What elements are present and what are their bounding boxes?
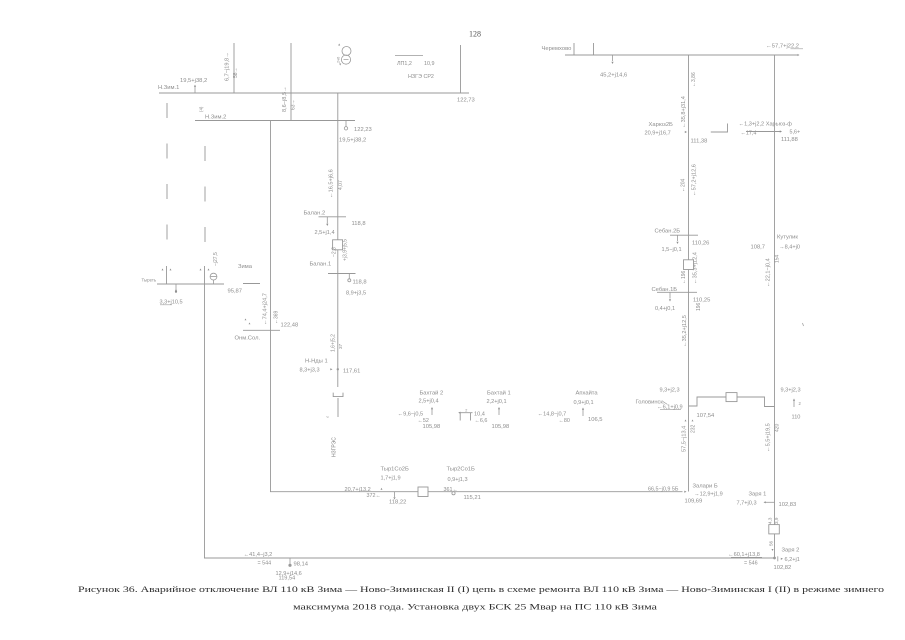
generator circle lower — [341, 55, 350, 64]
BSK stem — [213, 280, 215, 284]
tripped-flow arrow b1 — [200, 269, 202, 271]
underline 60,1+j13,8 — [731, 556, 762, 558]
tick Балан.2 — [319, 216, 347, 218]
svg-text:95,87: 95,87 — [228, 289, 243, 295]
bus H7 bottom — [204, 557, 775, 559]
tick Харьюзовка — [746, 131, 780, 133]
tripped-flow arrow a2 — [170, 269, 172, 271]
load arrow Себан.2Б — [676, 242, 678, 244]
transformer T on H6 — [418, 487, 428, 497]
svg-text:←14,8−j0,7: ←14,8−j0,7 — [538, 412, 567, 418]
wire Головинская stepped link — [689, 397, 775, 407]
svg-text:107,54: 107,54 — [697, 413, 716, 419]
open breaker bracket — [333, 393, 343, 397]
load arrow Балан.2 — [326, 224, 328, 226]
load stem Тыреть — [175, 284, 177, 289]
svg-text:←35,2+j12,5: ←35,2+j12,5 — [682, 315, 688, 347]
svg-text:420: 420 — [774, 423, 780, 432]
svg-text:←9,6−j0,5: ←9,6−j0,5 — [398, 412, 424, 418]
svg-text:111,88: 111,88 — [781, 137, 798, 143]
generator arrow up — [338, 44, 340, 46]
svg-text:8,6−j8,5→: 8,6−j8,5→ — [282, 86, 288, 112]
svg-text:122,73: 122,73 — [457, 98, 475, 104]
node circle on H6 — [452, 492, 455, 495]
svg-text:Н.Зим.1: Н.Зим.1 — [158, 85, 179, 91]
tripped-flow arrow a1 — [162, 269, 164, 271]
svg-text:(4): (4) — [199, 106, 204, 112]
svg-text:372←: 372← — [367, 493, 381, 499]
svg-text:117,61: 117,61 — [343, 369, 360, 375]
tiny mark right margin — [803, 323, 804, 326]
svg-text:→8,4+j0: →8,4+j0 — [779, 245, 800, 251]
load arrow up at Н.Зим.1 — [194, 85, 196, 87]
transformer T Заря — [769, 525, 780, 534]
svg-text:←196: ←196 — [681, 270, 687, 284]
svg-text:Балан.2: Балан.2 — [304, 211, 326, 217]
svg-text:2,5+j0,4: 2,5+j0,4 — [419, 399, 439, 405]
bus end arrow — [797, 54, 799, 56]
svg-text:2,2+j0,1: 2,2+j0,1 — [487, 399, 507, 405]
svg-text:Балан.1: Балан.1 — [310, 262, 332, 268]
arrow down below T Заря — [772, 549, 774, 551]
lower stub of dashed line I — [166, 266, 168, 284]
svg-text:45,2+j14,6: 45,2+j14,6 — [600, 73, 627, 79]
svg-text:Бахтай 2: Бахтай 2 — [420, 390, 444, 397]
bus Черемхово — [565, 54, 797, 56]
svg-text:8,3+j3,3: 8,3+j3,3 — [300, 368, 320, 374]
svg-text:8,9+j3,5: 8,9+j3,5 — [346, 291, 366, 297]
svg-text:154: 154 — [774, 254, 780, 263]
flow arrow d2 — [692, 420, 694, 422]
svg-text:111,38: 111,38 — [691, 139, 708, 145]
svg-text:−j27,5: −j27,5 — [213, 252, 219, 266]
load stem at Н.Зим.1 — [194, 86, 196, 93]
underline 22,2 — [791, 48, 804, 50]
svg-text:Заря 1: Заря 1 — [749, 492, 767, 498]
svg-text:Черемхово: Черемхово — [542, 46, 572, 52]
svg-text:110: 110 — [792, 415, 801, 421]
svg-text:6,7−j19,8→: 6,7−j19,8→ — [225, 52, 231, 81]
stem Бахтай 2 — [431, 409, 433, 416]
svg-text:→12,9+j1,9: →12,9+j1,9 — [694, 492, 723, 498]
svg-text:361←: 361← — [444, 487, 458, 493]
svg-text:2,5+j1,4: 2,5+j1,4 — [315, 230, 335, 236]
svg-text:118,8: 118,8 — [352, 221, 366, 227]
H6 end arrow — [684, 491, 686, 493]
svg-text:10,9: 10,9 — [424, 61, 435, 67]
svg-text:105,98: 105,98 — [423, 424, 441, 430]
node stem 122,23 — [345, 121, 347, 127]
svg-text:0,9+j1,3: 0,9+j1,3 — [448, 477, 468, 483]
small arrow c2 — [249, 323, 251, 325]
transformer T Себан — [684, 260, 694, 270]
tripped-flow arrow b2 — [208, 269, 210, 271]
dashed line Зима-НовоЗиминская II — [204, 146, 206, 257]
node circle 122,23 — [344, 127, 347, 130]
svg-text:НЗГЭ СР2: НЗГЭ СР2 — [408, 74, 434, 80]
svg-text:Рисунок 36. Аварийное отключен: Рисунок 36. Аварийное отключение ВЛ 110 … — [78, 585, 884, 594]
underline 6,1+j0,9 — [660, 409, 681, 411]
tick Черемхово 2 — [593, 43, 595, 55]
svg-text:7,7+j0,3: 7,7+j0,3 — [737, 501, 757, 507]
arrow up Апхайта — [582, 408, 584, 410]
wire feeder V270 — [270, 121, 272, 492]
svg-text:Зима: Зима — [238, 264, 253, 270]
node stem 98,14 — [289, 558, 291, 564]
svg-text:= 546: = 546 — [744, 561, 758, 567]
stem Апхайта — [582, 409, 584, 416]
dashed line Зима-НовоЗиминская I — [166, 103, 168, 257]
tick symbol Харьюз — [711, 124, 728, 133]
svg-text:Онм.Сол.: Онм.Сол. — [235, 336, 261, 342]
svg-text:НЗГРЭС: НЗГРЭС — [332, 437, 338, 457]
load stem Балан.2 — [326, 217, 328, 224]
svg-text:Тыр2Со1Б: Тыр2Со1Б — [447, 467, 476, 473]
generator tilde mark — [344, 59, 349, 61]
transformer T Балан — [333, 240, 343, 250]
svg-text:3,9: 3,9 — [774, 517, 779, 524]
wire from 128-line to bus Н.Зим.1 — [460, 45, 462, 93]
arrow Заря2 right — [781, 558, 783, 560]
svg-text:19,5+j38,2: 19,5+j38,2 — [339, 138, 366, 144]
svg-text:Харюз2Б: Харюз2Б — [649, 122, 674, 128]
arrow into node Н-Нды — [330, 368, 332, 370]
wire line to Черемхово circuit 1 — [233, 43, 235, 93]
svg-text:←3,86: ←3,86 — [691, 72, 697, 87]
svg-text:←1,3+j2,2 Харьюз-ф: ←1,3+j2,2 Харьюз-ф — [739, 122, 793, 128]
small arrow c1 — [245, 319, 247, 321]
svg-text:128: 128 — [469, 30, 481, 39]
wire feeder V689 — [688, 55, 690, 492]
arrow up Бахтай 1 — [498, 407, 500, 409]
svg-text:122,48: 122,48 — [281, 323, 299, 329]
tick Себан.1Б — [657, 291, 697, 293]
bus Онм.Сол. — [243, 329, 280, 331]
bus H6 Зима-Залари — [270, 491, 683, 493]
svg-text:Себан.2Б: Себан.2Б — [655, 229, 681, 235]
svg-text:←5,5+j19,5: ←5,5+j19,5 — [765, 423, 771, 452]
wire feeder V775 — [774, 55, 776, 558]
load arrow 118,22 — [393, 497, 395, 499]
svg-text:←22,1−j0,4: ←22,1−j0,4 — [765, 258, 771, 287]
svg-text:115,21: 115,21 — [464, 495, 481, 501]
svg-text:56: 56 — [768, 540, 773, 546]
pointer tick Головинск — [663, 402, 668, 405]
svg-text:Бахтай 1: Бахтай 1 — [487, 390, 511, 397]
svg-text:6,2+j1: 6,2+j1 — [785, 557, 800, 563]
svg-text:108,7: 108,7 — [751, 245, 766, 251]
svg-text:Залари Б: Залари Б — [693, 484, 718, 490]
svg-text:63→: 63→ — [291, 99, 297, 110]
tick Балан.1 — [328, 273, 356, 275]
bus Н.Зим.1 — [159, 92, 469, 94]
svg-text:←16,5+j6,6: ←16,5+j6,6 — [329, 169, 335, 198]
svg-text:19,5+j38,2: 19,5+j38,2 — [180, 78, 207, 84]
svg-text:= 544: = 544 — [258, 561, 272, 567]
tiny arrow up at flow — [381, 488, 383, 490]
svg-text:37: 37 — [338, 343, 343, 349]
svg-text:0,9+j0,1: 0,9+j0,1 — [574, 400, 594, 406]
svg-text:58→: 58→ — [233, 67, 239, 78]
svg-text:Тыр1Со2Б: Тыр1Со2Б — [381, 467, 410, 473]
load arrow Черемхово — [611, 62, 613, 64]
svg-text:Апхайта: Апхайта — [576, 390, 599, 397]
svg-text:←369: ←369 — [274, 310, 280, 324]
svg-text:1,5−j0,1: 1,5−j0,1 — [662, 247, 682, 253]
svg-text:+j3,9+j5,5: +j3,9+j5,5 — [342, 239, 348, 261]
underline 3,3 — [160, 304, 172, 306]
jumper arrow left — [458, 412, 460, 414]
svg-text:66,5−j0,9 5Б: 66,5−j0,9 5Б — [648, 486, 679, 492]
svg-text:102,83: 102,83 — [779, 502, 797, 508]
load stem Себан.2Б — [677, 235, 679, 241]
svg-text:232: 232 — [691, 424, 697, 433]
wire line to Черемхово circuit 2 — [290, 43, 292, 121]
svg-text:2: 2 — [465, 409, 467, 413]
bus Тыреть — [157, 283, 224, 285]
stem Бахтай 1 — [498, 409, 500, 416]
svg-text:9,3+j2,3: 9,3+j2,3 — [660, 388, 680, 394]
svg-text:Кутулик: Кутулик — [777, 235, 798, 241]
arrow Харьюзовка — [780, 130, 782, 132]
svg-text:102,82: 102,82 — [774, 565, 792, 571]
load dot Тыреть — [175, 291, 177, 293]
svg-text:110,26: 110,26 — [692, 241, 709, 247]
svg-text:←57,2+j12,6: ←57,2+j12,6 — [691, 164, 697, 196]
arrow up Головинская — [793, 399, 795, 401]
generator arrow down — [339, 64, 341, 66]
BSK bar — [211, 276, 217, 278]
svg-text:←41,4−j3,2: ←41,4−j3,2 — [244, 552, 273, 558]
tick Заря2 — [777, 556, 779, 561]
svg-text:4,3: 4,3 — [767, 517, 772, 524]
svg-text:105,98: 105,98 — [492, 424, 510, 430]
tick Заря1 — [766, 501, 775, 503]
svg-text:максимума 2018 года. Установка: максимума 2018 года. Установка двух БСК … — [293, 603, 658, 612]
BSK circle — [210, 273, 217, 280]
svg-text:ЛП1,2: ЛП1,2 — [397, 61, 412, 67]
svg-text:1,6+j5,2: 1,6+j5,2 — [331, 334, 337, 352]
svg-text:98,14: 98,14 — [294, 562, 309, 568]
svg-text:←204: ←204 — [680, 178, 686, 192]
load arrow Себан.1Б — [669, 299, 671, 301]
svg-text:Заря 2: Заря 2 — [782, 548, 800, 554]
svg-text:118,8: 118,8 — [353, 280, 367, 286]
jumper bracket symbol — [460, 413, 472, 421]
svg-text:109,69: 109,69 — [685, 499, 703, 505]
svg-text:←80: ←80 — [559, 418, 570, 424]
svg-text:Н-Нды 1: Н-Нды 1 — [305, 359, 328, 365]
load stem 118,22 — [394, 492, 396, 497]
stub to НЗГРЭС — [337, 398, 339, 417]
node circle Балан.1 — [348, 279, 351, 282]
node stem Балан.1 — [348, 274, 350, 279]
main left feeder V204 — [204, 266, 206, 558]
transformer T Головинская — [726, 393, 737, 402]
bus Зима — [243, 283, 260, 285]
load stem Себан.1Б — [669, 293, 671, 299]
load arrow Тыреть — [175, 290, 177, 292]
svg-text:119,54: 119,54 — [279, 576, 296, 582]
svg-text:1,7+j1,9: 1,7+j1,9 — [381, 476, 401, 482]
svg-text:20,9+j16,7: 20,9+j16,7 — [645, 131, 671, 137]
flow arrow d1 — [685, 420, 687, 422]
tick Себан.2Б — [670, 234, 698, 236]
tick Черемхово 1 — [573, 43, 575, 55]
svg-text:0,4+j0,1: 0,4+j0,1 — [655, 306, 675, 312]
svg-text:Тыреть: Тыреть — [142, 278, 157, 283]
svg-text:10,4: 10,4 — [474, 412, 485, 418]
svg-text:118,22: 118,22 — [389, 500, 406, 506]
arrow up Бахтай 2 — [431, 407, 433, 409]
stem arrow right — [793, 400, 795, 407]
arrow Заря1 — [764, 501, 766, 503]
svg-text:5,6+: 5,6+ — [790, 130, 801, 136]
svg-text:106,5: 106,5 — [588, 417, 603, 423]
arrow into V689 — [685, 131, 687, 133]
bus Н.Зим.2 — [195, 120, 355, 122]
svg-text:196: 196 — [696, 302, 702, 311]
load stem Черемхово — [612, 55, 614, 61]
node dot H7 end — [773, 557, 776, 560]
svg-text:122,23: 122,23 — [354, 127, 372, 133]
svg-text:←35,8+j31,4: ←35,8+j31,4 — [681, 96, 687, 128]
svg-text:ч: ч — [327, 415, 329, 419]
svg-text:−2,3: −2,3 — [331, 247, 337, 257]
svg-text:4,07: 4,07 — [338, 180, 344, 190]
wire НЗ ТЭЦ feeder upper — [337, 93, 339, 387]
svg-text:←6,6: ←6,6 — [475, 418, 488, 424]
svg-text:57,5−j13,4: 57,5−j13,4 — [682, 426, 688, 452]
svg-text:Н.Зим.2: Н.Зим.2 — [205, 115, 226, 121]
node dot 98,14 — [288, 564, 291, 567]
svg-text:←74,4+j24,7: ←74,4+j24,7 — [263, 293, 269, 325]
svg-text:9,3+j2,3: 9,3+j2,3 — [781, 388, 801, 394]
svg-text:2ч6: 2ч6 — [337, 57, 341, 63]
overline of note ЛП1,2 — [395, 55, 423, 57]
svg-text:110,25: 110,25 — [693, 298, 710, 304]
node dot Н-Нды — [337, 368, 339, 370]
generator circle upper — [342, 47, 351, 56]
